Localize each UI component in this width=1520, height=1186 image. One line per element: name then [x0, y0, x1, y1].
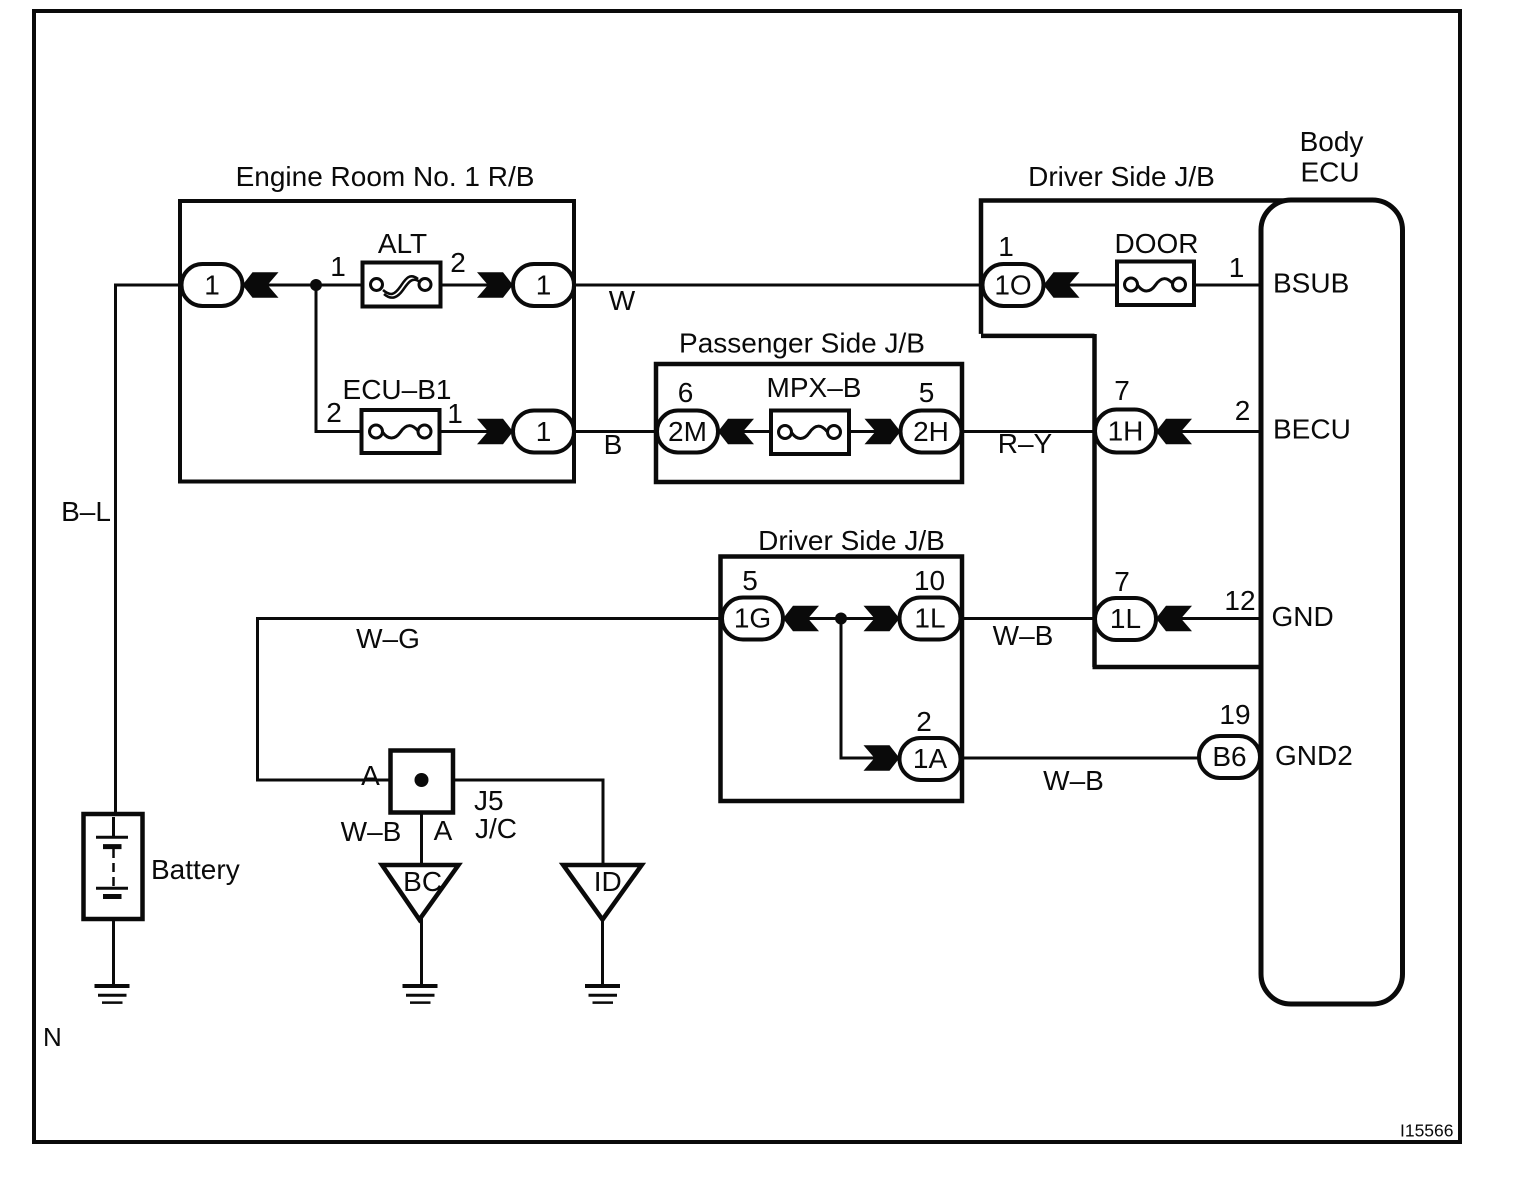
arrow right into 1A — [864, 745, 900, 771]
svg-text:2H: 2H — [913, 416, 949, 447]
svg-text:Battery: Battery — [151, 854, 240, 885]
svg-text:W–B: W–B — [341, 816, 402, 847]
svg-text:1: 1 — [204, 270, 220, 301]
fuse MPX-B — [771, 411, 849, 455]
svg-text:J5: J5 — [474, 785, 504, 816]
connector oval 1G — [722, 598, 783, 640]
svg-text:W–B: W–B — [1043, 765, 1104, 796]
wire label W-B (J5) — [341, 816, 402, 847]
wire branch node to ECU-B1 fuse — [315, 285, 364, 432]
svg-text:DOOR: DOOR — [1115, 228, 1199, 259]
wire W engine room to driver side J/B — [573, 284, 984, 287]
label Driver Side J/B (top) — [1028, 161, 1215, 192]
wire label B — [604, 429, 623, 460]
svg-text:10: 10 — [914, 565, 945, 596]
pin name GND2 — [1275, 740, 1353, 771]
svg-text:Engine Room No. 1 R/B: Engine Room No. 1 R/B — [236, 161, 535, 192]
pin number 7 (above 1H) — [1114, 375, 1130, 406]
label ALT — [378, 228, 427, 259]
svg-text:7: 7 — [1114, 566, 1130, 597]
wire label W-B (middle) — [993, 620, 1054, 651]
junction box J5 J/C — [391, 751, 454, 813]
svg-text:I15566: I15566 — [1400, 1121, 1454, 1141]
label I15566 — [1400, 1121, 1454, 1141]
label A (below J5) — [434, 815, 453, 846]
fuse DOOR — [1117, 262, 1194, 306]
label Driver Side J/B (middle) — [758, 525, 945, 556]
wire 1L to ECU pin GND — [1155, 617, 1261, 620]
wire J5 down to BC — [420, 780, 423, 866]
connector text 1L (right) — [1110, 603, 1141, 634]
svg-text:A: A — [434, 815, 453, 846]
arrow right into oval 1 bottom — [477, 419, 513, 445]
arrow right into 2H — [865, 419, 901, 445]
pin number 5 (above 1G) — [742, 565, 758, 596]
arrow left into 1H — [1156, 419, 1192, 445]
wire engine room row1 node to ALT fuse — [242, 284, 363, 287]
wire MPX-B fuse to 2H — [847, 430, 902, 433]
connector triangle ID — [563, 865, 642, 920]
svg-text:Driver Side J/B: Driver Side J/B — [758, 525, 945, 556]
pin name BECU — [1273, 414, 1351, 445]
svg-text:J/C: J/C — [475, 813, 517, 844]
junction node engine room — [310, 279, 322, 291]
svg-text:B–L: B–L — [61, 496, 111, 527]
junction node driver side J/B — [835, 613, 847, 625]
svg-text:B6: B6 — [1212, 741, 1246, 772]
svg-text:Passenger Side J/B: Passenger Side J/B — [679, 328, 925, 359]
svg-text:W–B: W–B — [993, 620, 1054, 651]
connector text 1 (engine room right bottom) — [536, 416, 552, 447]
label ECU-B1 — [343, 374, 452, 405]
connector text 1L (middle) — [914, 603, 945, 634]
svg-text:ECU–B1: ECU–B1 — [343, 374, 452, 405]
label J/C — [475, 813, 517, 844]
wire 1G to 1L with junction — [782, 617, 901, 620]
ground (ID) — [585, 986, 620, 1003]
svg-text:W: W — [609, 285, 636, 316]
label DOOR — [1115, 228, 1199, 259]
wire W-G horizontal to 1G — [256, 617, 723, 620]
pin number 2 (above 1A) — [916, 706, 932, 737]
connector oval 1L (right) — [1095, 598, 1156, 640]
wire to J5 junction — [256, 779, 392, 782]
svg-text:1A: 1A — [913, 743, 948, 774]
pin number 1 (ALT left) — [330, 251, 346, 282]
arrow left into 2M — [718, 419, 754, 445]
wire J5 to ID branch — [452, 780, 605, 866]
connector oval 1A — [900, 738, 961, 780]
arrow left into oval 1 engine room — [243, 272, 279, 298]
svg-text:1: 1 — [1229, 252, 1245, 283]
svg-text:7: 7 — [1114, 375, 1130, 406]
connector text 1O — [994, 270, 1031, 301]
ground (BC) — [403, 986, 438, 1003]
wire W-B 1L to 1L — [959, 617, 1096, 620]
connector oval 1H — [1095, 410, 1156, 453]
pin name BSUB — [1273, 268, 1349, 299]
wire 1O to DOOR fuse — [1042, 284, 1118, 287]
svg-text:ECU: ECU — [1300, 157, 1359, 188]
connector text 1A — [913, 743, 948, 774]
wire BC to ground — [420, 918, 423, 986]
wire junction down to 1A — [840, 619, 902, 759]
pin number 7 (above 1L right) — [1114, 566, 1130, 597]
svg-text:ALT: ALT — [378, 228, 427, 259]
svg-text:BECU: BECU — [1273, 414, 1351, 445]
svg-text:1H: 1H — [1108, 416, 1144, 447]
svg-text:5: 5 — [919, 377, 935, 408]
connector oval B6 — [1199, 736, 1260, 778]
label N — [43, 1022, 62, 1052]
wire W-G vertical segment — [256, 617, 259, 782]
connector text B6 — [1212, 741, 1246, 772]
fuse ALT — [363, 263, 441, 307]
svg-text:1O: 1O — [994, 270, 1031, 301]
svg-text:6: 6 — [678, 377, 694, 408]
connector text 1G — [734, 603, 771, 634]
connector text 2H — [913, 416, 949, 447]
pin number 12 (GND wire) — [1224, 585, 1255, 616]
svg-text:N: N — [43, 1022, 62, 1052]
svg-text:BSUB: BSUB — [1273, 268, 1349, 299]
pin number 2 (ECU-B1 left) — [326, 397, 342, 428]
connector oval 1 (engine room right bottom) — [513, 411, 574, 453]
svg-text:GND2: GND2 — [1275, 740, 1353, 771]
wire DOOR fuse to ECU pin BSUB — [1193, 284, 1261, 287]
arrow left into 1G — [783, 606, 819, 632]
svg-text:1: 1 — [536, 416, 552, 447]
pin number 1 (above 1O) — [998, 231, 1014, 262]
arrow right into 1L middle — [864, 606, 900, 632]
label Body ECU — [1300, 126, 1364, 188]
wire label W-G — [356, 623, 420, 654]
wire B engine room to passenger side J/B — [573, 430, 659, 433]
svg-text:BC: BC — [403, 866, 442, 897]
pin number 1 (ECU-B1 right) — [447, 398, 463, 429]
svg-text:1: 1 — [536, 270, 552, 301]
wire battery to ground — [112, 897, 115, 986]
svg-text:R–Y: R–Y — [998, 428, 1053, 459]
svg-text:12: 12 — [1224, 585, 1255, 616]
pin number 6 (above 2M) — [678, 377, 694, 408]
passenger side J/B box — [656, 364, 962, 482]
pin name GND — [1272, 601, 1334, 632]
svg-text:Driver Side J/B: Driver Side J/B — [1028, 161, 1215, 192]
pin number 2 (BECU wire) — [1235, 395, 1251, 426]
svg-text:5: 5 — [742, 565, 758, 596]
battery — [84, 814, 143, 919]
svg-text:B: B — [604, 429, 623, 460]
ground (battery) — [95, 986, 130, 1003]
label J5 — [474, 785, 504, 816]
label A (left of J5) — [361, 760, 380, 791]
connector text 1 (engine room right top) — [536, 270, 552, 301]
svg-text:MPX–B: MPX–B — [767, 372, 862, 403]
connector oval 1 (engine room right top) — [513, 264, 574, 306]
wire ALT fuse to connector 1 — [440, 284, 514, 287]
engine room No.1 R/B box — [180, 201, 574, 482]
svg-text:2: 2 — [916, 706, 932, 737]
pin number 10 (above 1L middle) — [914, 565, 945, 596]
label Engine Room No. 1 R/B — [236, 161, 535, 192]
svg-text:2M: 2M — [668, 416, 707, 447]
svg-text:Body: Body — [1300, 126, 1364, 157]
driver side J/B box (top, L-shaped) — [981, 201, 1290, 668]
svg-text:W–G: W–G — [356, 623, 420, 654]
label ID — [594, 866, 622, 897]
wire label R-Y — [998, 428, 1053, 459]
wire R-Y 2H to 1H — [960, 430, 1096, 433]
arrow left into 1L right — [1156, 606, 1192, 632]
wire 1H to ECU pin BECU — [1155, 430, 1261, 433]
pin number 2 (ALT right) — [450, 247, 466, 278]
connector oval 1O — [983, 264, 1044, 306]
pin number 5 (above 2H) — [919, 377, 935, 408]
svg-text:ID: ID — [594, 866, 622, 897]
svg-text:1: 1 — [330, 251, 346, 282]
label MPX-B — [767, 372, 862, 403]
arrow right into oval 1 top — [477, 272, 513, 298]
pin number 19 (above B6) — [1219, 699, 1250, 730]
wire W-B 1A to B6 — [959, 757, 1201, 760]
wire 2M to MPX-B fuse — [717, 430, 773, 433]
svg-text:1: 1 — [998, 231, 1014, 262]
arrow left into 1O — [1044, 272, 1080, 298]
svg-text:1L: 1L — [1110, 603, 1141, 634]
svg-text:19: 19 — [1219, 699, 1250, 730]
label Battery — [151, 854, 240, 885]
wire B-L vertical from node to battery — [114, 285, 182, 837]
connector oval 1 (engine room left) — [182, 264, 243, 306]
connector triangle BC — [382, 865, 459, 920]
svg-text:1L: 1L — [914, 603, 945, 634]
svg-text:2: 2 — [450, 247, 466, 278]
svg-text:GND: GND — [1272, 601, 1334, 632]
svg-text:2: 2 — [1235, 395, 1251, 426]
driver side J/B box (middle) — [721, 557, 963, 802]
label Passenger Side J/B — [679, 328, 925, 359]
svg-text:1: 1 — [447, 398, 463, 429]
connector oval 1L (middle) — [900, 598, 961, 640]
svg-text:A: A — [361, 760, 380, 791]
fuse ECU-B1 — [362, 410, 440, 453]
wire ECU-B1 fuse to connector 1 — [439, 430, 514, 433]
connector text 1 (engine room left) — [204, 270, 220, 301]
svg-text:2: 2 — [326, 397, 342, 428]
connector oval 2H — [901, 411, 962, 453]
wire label W-B (bottom) — [1043, 765, 1104, 796]
body ECU outline — [1261, 200, 1403, 1004]
wire ID to ground — [601, 918, 604, 986]
pin number 1 (BSUB wire) — [1229, 252, 1245, 283]
connector oval 2M — [657, 411, 718, 453]
label BC — [403, 866, 442, 897]
wire label W — [609, 285, 636, 316]
connector text 1H — [1108, 416, 1144, 447]
svg-text:1G: 1G — [734, 603, 771, 634]
wire label B-L — [61, 496, 111, 527]
connector text 2M — [668, 416, 707, 447]
